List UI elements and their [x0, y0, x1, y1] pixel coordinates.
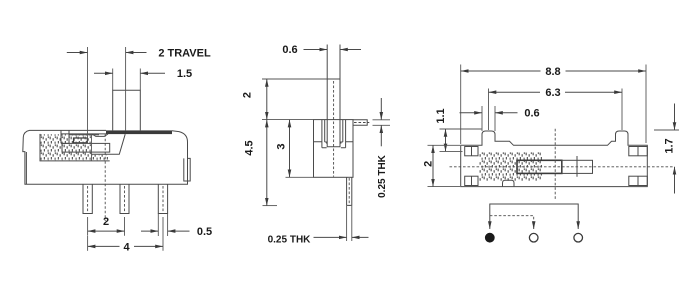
dimension 0.5 (pin width): [157, 214, 159, 237]
svg-text:0.25 THK: 0.25 THK: [268, 234, 312, 245]
spring hatch bottom strip: [92, 155, 109, 161]
dimension 0.25 THK (bottom pin): [346, 206, 348, 241]
interior line: [69, 134, 99, 136]
svg-text:1.1: 1.1: [435, 108, 447, 123]
stem (knob side): [327, 45, 340, 120]
dimension 1.7: [654, 129, 679, 131]
pad top-right: [629, 147, 648, 156]
body outline: [23, 130, 188, 184]
dimension 4.5 (total height): [266, 120, 268, 206]
pin 2: [120, 184, 129, 213]
right side foot tab: [184, 158, 190, 181]
dimension 3 (body height): [289, 120, 291, 178]
svg-text:4.5: 4.5: [243, 140, 255, 155]
horizontal centerline: [450, 166, 673, 168]
pad top-left: [465, 147, 478, 156]
interior box A: [61, 130, 69, 143]
centerline (dashed): [104, 134, 106, 221]
svg-text:8.8: 8.8: [545, 66, 560, 78]
dimension 2 TRAVEL: [87, 47, 89, 143]
dimension 2 (body width): [428, 144, 461, 146]
svg-text:0.25 THK: 0.25 THK: [377, 154, 388, 198]
detent bump: [92, 134, 108, 137]
dimension 1.1: [440, 128, 482, 130]
pin 1: [83, 184, 92, 213]
terminal 1 (common, filled): [486, 233, 495, 242]
svg-text:1.7: 1.7: [664, 138, 676, 153]
svg-text:2: 2: [423, 161, 435, 167]
terminal 3: [574, 233, 583, 242]
svg-text:4: 4: [123, 241, 130, 253]
pin 3: [158, 184, 167, 213]
slider body rect: [62, 143, 110, 152]
pad bottom-right: [629, 176, 648, 185]
body outline: [314, 120, 354, 178]
spring hatch speckle: [41, 134, 92, 160]
schematic dashed branch: [490, 216, 534, 226]
svg-text:3: 3: [275, 143, 287, 149]
ext line body bottom: [286, 176, 314, 178]
bottom pin: [347, 177, 352, 205]
inner top line: [61, 133, 106, 135]
schematic bracket line: [490, 204, 578, 229]
contact box (dark): [74, 138, 88, 143]
left side tab line: [25, 152, 27, 184]
right inner plate: [341, 120, 353, 148]
left inner plate: [314, 120, 327, 148]
svg-text:0.6: 0.6: [524, 108, 539, 120]
slider extension: [562, 160, 593, 173]
slider tick: [576, 156, 578, 177]
hatch area border: [40, 134, 110, 161]
cover plate (thick top bar): [106, 130, 172, 134]
svg-text:0.6: 0.6: [282, 44, 297, 56]
vertical centerline: [554, 129, 556, 201]
dimension 6.3: [488, 89, 490, 131]
stem inside body: [327, 120, 340, 147]
dimension 2 (stem height): [266, 79, 268, 120]
dimension 8.8 (overall length): [460, 65, 462, 145]
spring speckle area: [479, 152, 542, 181]
cavity slant: [92, 134, 126, 154]
ext line stem top: [262, 78, 327, 80]
svg-text:0.5: 0.5: [197, 226, 212, 238]
terminal 2: [529, 233, 538, 242]
pad bottom-left: [465, 176, 478, 185]
dimension 2 (pin pitch): [87, 217, 89, 236]
svg-text:6.3: 6.3: [545, 87, 560, 99]
knob (actuator): [113, 90, 141, 130]
svg-text:2: 2: [242, 92, 254, 98]
ext line body top: [262, 119, 314, 121]
svg-text:1.5: 1.5: [177, 68, 192, 80]
stem centerline: [333, 81, 335, 177]
bottom small tab: [503, 180, 515, 186]
dimension 0.6 (bump width): [481, 106, 483, 131]
svg-text:2: 2: [103, 216, 109, 228]
side tab pin: [353, 120, 367, 126]
dimension 4 (outer pin pitch): [87, 236, 89, 251]
hatch right boundary: [91, 135, 93, 161]
body outline with bumps: [461, 131, 648, 187]
dimension 0.6 (stem width): [304, 49, 328, 51]
ext line pin bottom: [263, 205, 278, 207]
slider bar (thick): [517, 160, 562, 173]
svg-text:2 TRAVEL: 2 TRAVEL: [158, 48, 211, 60]
dimension 0.25 THK (side tab): [373, 119, 391, 121]
dimension 1.5: [112, 69, 114, 91]
